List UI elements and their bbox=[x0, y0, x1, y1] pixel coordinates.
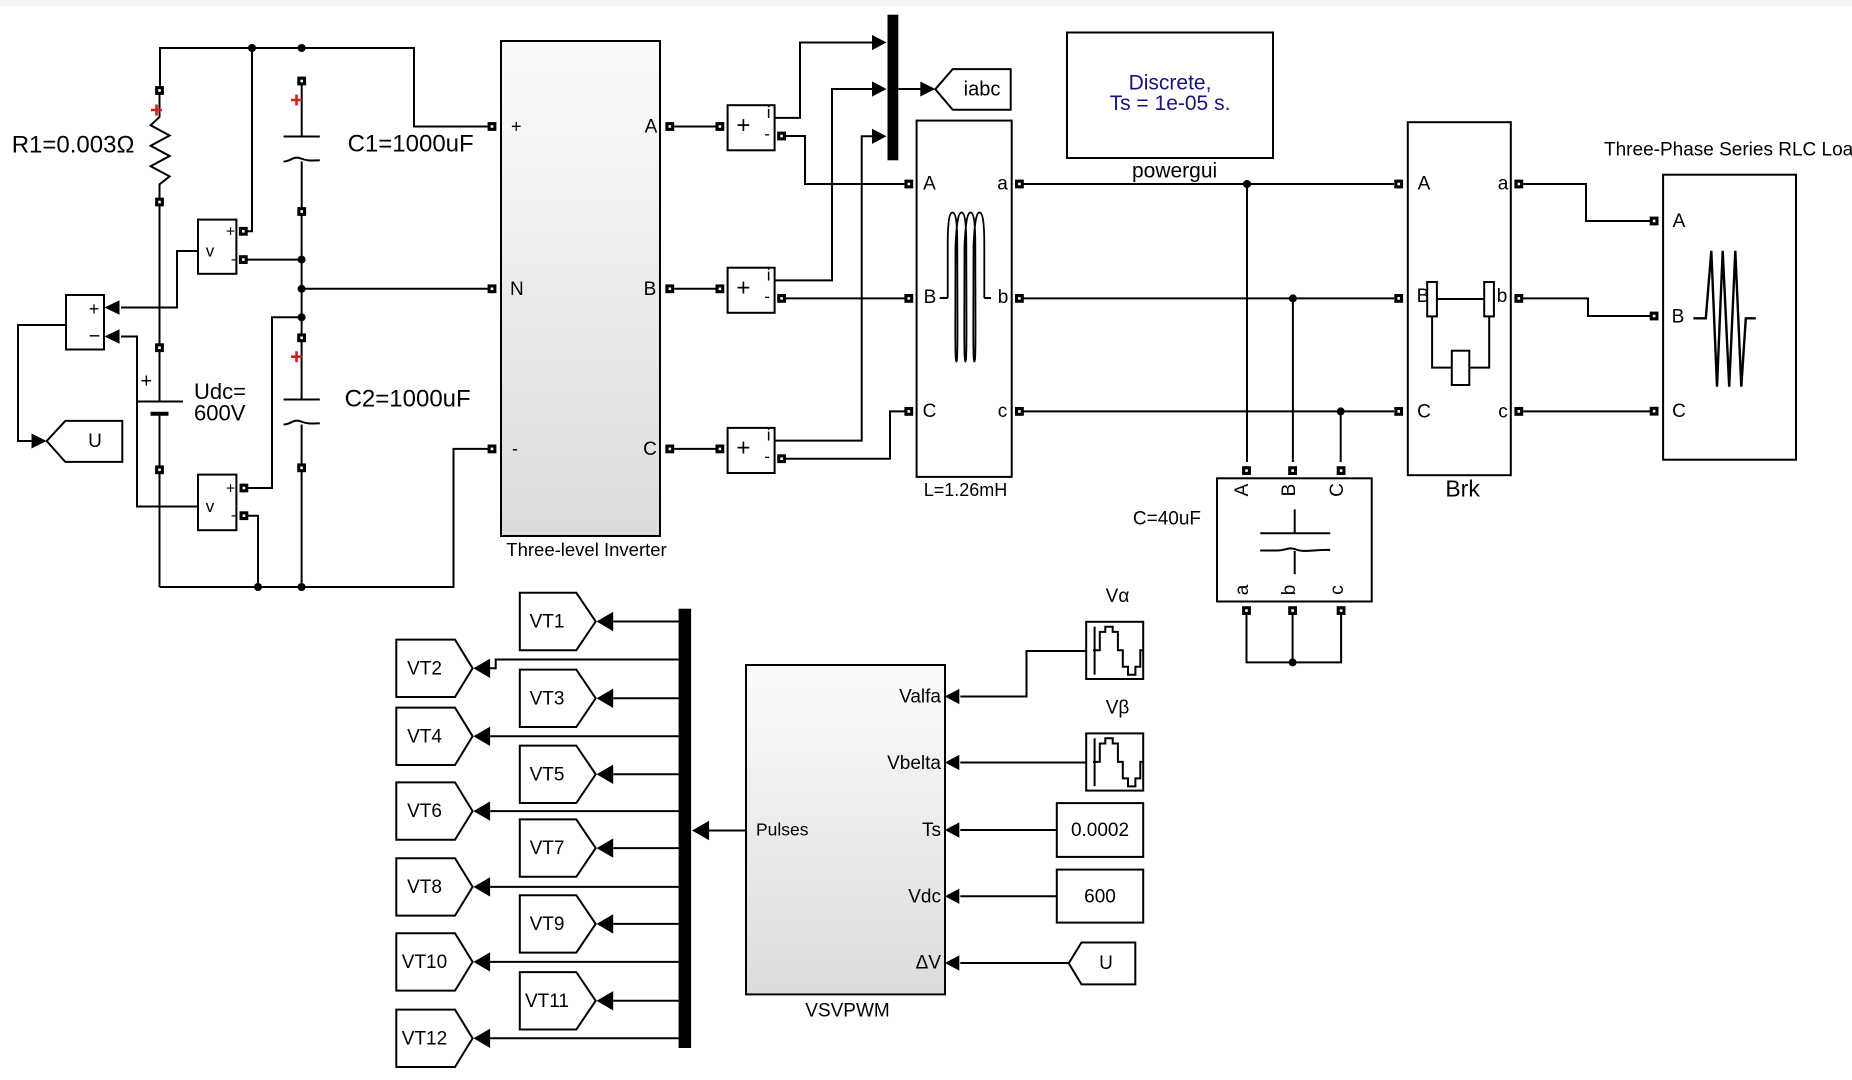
demux bus2 bbox=[679, 609, 692, 1048]
arrow into tag VT2 bbox=[474, 659, 491, 678]
goto tag VT12 bbox=[396, 1010, 472, 1067]
arrow into tag VT12 bbox=[474, 1029, 491, 1048]
svg-text:VT4: VT4 bbox=[407, 726, 442, 747]
current sensor CM1 bbox=[728, 103, 775, 150]
wire CM2 i output to mux bbox=[775, 89, 872, 280]
goto tag VT8 bbox=[396, 858, 472, 915]
svg-text:Ts: Ts bbox=[922, 820, 941, 841]
port B of cap bank bbox=[1288, 466, 1297, 475]
port C of RLC load bbox=[1650, 407, 1659, 416]
wire VSVPWM Pulses to demux bbox=[709, 830, 746, 832]
svg-text:N: N bbox=[510, 279, 524, 300]
mux bus1 bbox=[888, 15, 899, 161]
port - of inverter bbox=[488, 445, 497, 454]
port - of CM1 bbox=[777, 132, 786, 141]
wire demux to VT6 bbox=[490, 810, 678, 812]
junction cap bank star point bbox=[1289, 658, 1297, 666]
arrow into tag VT6 bbox=[474, 801, 491, 820]
wire V1 output to sum + bbox=[121, 251, 198, 308]
svg-text:Pulses: Pulses bbox=[756, 820, 809, 840]
goto tag VT5 bbox=[520, 746, 596, 803]
svg-text:VT5: VT5 bbox=[530, 764, 565, 785]
wire demux to VT8 bbox=[490, 886, 678, 888]
port c of cap bank bbox=[1337, 606, 1346, 615]
dc source Udc bbox=[137, 352, 183, 466]
port B of inverter bbox=[665, 284, 674, 293]
arrow into tag VT9 bbox=[597, 914, 614, 933]
port 1 of R1 bbox=[155, 86, 164, 95]
junction node N bbox=[298, 285, 306, 293]
svg-text:ΔV: ΔV bbox=[916, 953, 942, 974]
goto tag VT1 bbox=[520, 593, 596, 650]
svg-text:A: A bbox=[1418, 174, 1431, 195]
wire C2 bottom to DC- rail bbox=[301, 472, 303, 587]
port b of inductor block bbox=[1015, 294, 1024, 303]
svg-text:B: B bbox=[644, 279, 657, 300]
wire sum output to goto tag U bbox=[18, 325, 66, 441]
red polarity + of R1 bbox=[151, 105, 162, 116]
svg-text:C: C bbox=[1672, 401, 1686, 422]
wire demux to VT7 bbox=[613, 847, 678, 849]
svg-text:B: B bbox=[924, 287, 937, 308]
wire V2 - to DC- rail bbox=[242, 516, 259, 587]
arrow into Valfa input bbox=[945, 689, 960, 704]
svg-text:Vdc: Vdc bbox=[908, 886, 941, 907]
goto tag VT4 bbox=[396, 708, 472, 765]
svg-text:A: A bbox=[923, 174, 936, 195]
port 2 of C2 bbox=[297, 463, 306, 472]
goto tag VT6 bbox=[396, 782, 472, 839]
powergui block bbox=[1067, 33, 1273, 159]
svg-text:C1=1000uF: C1=1000uF bbox=[348, 130, 474, 157]
port + of V1 bbox=[239, 227, 248, 236]
svg-text:C: C bbox=[923, 401, 937, 422]
wire demux to VT9 bbox=[613, 923, 678, 925]
goto tag U bbox=[47, 421, 123, 462]
port 2 of R1 bbox=[155, 198, 164, 207]
svg-text:+: + bbox=[736, 275, 750, 302]
junction phase b to cap bank bbox=[1289, 294, 1297, 302]
port A of inductor block bbox=[904, 180, 913, 189]
port B of RLC load bbox=[1650, 312, 1659, 321]
svg-text:VT10: VT10 bbox=[402, 952, 447, 973]
svg-text:Three-Phase Series RLC Load: Three-Phase Series RLC Load bbox=[1604, 140, 1852, 161]
port - of CM3 bbox=[777, 454, 786, 463]
wire demux to VT10 bbox=[490, 961, 678, 963]
wire constant 600 to Vdc input bbox=[960, 895, 1057, 897]
wire inductor c to Brk C bbox=[1016, 410, 1394, 412]
svg-text:0.0002: 0.0002 bbox=[1071, 820, 1129, 841]
port C of cap bank bbox=[1337, 466, 1346, 475]
svg-text:Ts = 1e-05 s.: Ts = 1e-05 s. bbox=[1110, 92, 1231, 115]
port b of Brk bbox=[1514, 294, 1523, 303]
goto tag VT10 bbox=[396, 933, 472, 990]
junction DC+ rail / C1 top bbox=[298, 44, 306, 52]
svg-text:c: c bbox=[1327, 585, 1348, 595]
zigzag icon inside RLC load bbox=[1693, 251, 1756, 387]
wire Valpha scope to Valfa input bbox=[960, 651, 1086, 697]
svg-text:a: a bbox=[1498, 174, 1509, 195]
wire V2 + tap bbox=[241, 317, 302, 488]
svg-text:L=1.26mH: L=1.26mH bbox=[924, 480, 1008, 500]
coil icon of inductor block bbox=[948, 213, 985, 362]
port C of Brk bbox=[1394, 407, 1403, 416]
svg-text:+: + bbox=[140, 370, 152, 392]
wire inverter A to CM1 + bbox=[674, 126, 723, 128]
from tag U2 bbox=[1069, 943, 1136, 985]
voltmeter V2 bbox=[198, 475, 236, 531]
wire demux to VT11 bbox=[613, 1000, 678, 1002]
arrow into Vbelta input bbox=[945, 755, 960, 770]
svg-text:Vβ: Vβ bbox=[1106, 698, 1130, 719]
wire inverter C to CM3 + bbox=[674, 448, 723, 450]
capacitor icon inside cap bank bbox=[1260, 509, 1330, 574]
port c of Brk bbox=[1514, 407, 1523, 416]
svg-text:a: a bbox=[1232, 584, 1253, 595]
svg-text:+: + bbox=[226, 481, 235, 498]
arrow into Vdc input bbox=[945, 889, 960, 904]
wire CM1 - to inductor A bbox=[778, 136, 905, 184]
inductor block L=1.26mH bbox=[917, 121, 1012, 477]
scope Valpha bbox=[1086, 622, 1143, 679]
load block Three-Phase Series RLC Load bbox=[1663, 175, 1796, 460]
port C of inverter bbox=[665, 445, 674, 454]
svg-text:600: 600 bbox=[1084, 886, 1116, 907]
svg-text:+: + bbox=[226, 224, 235, 241]
wire CM2 - to inductor B bbox=[778, 297, 905, 299]
svg-text:B: B bbox=[1279, 484, 1300, 497]
red polarity + of C2 bbox=[291, 351, 302, 362]
arrow into tag VT3 bbox=[597, 689, 614, 708]
arrow into tag VT11 bbox=[597, 991, 614, 1010]
capacitor bank block C=40uF bbox=[1217, 478, 1372, 601]
svg-text:+: + bbox=[89, 299, 100, 319]
junction phase c to cap bank bbox=[1337, 407, 1345, 415]
wire phase b down to cap bank B bbox=[1292, 298, 1294, 462]
coil lead lines bbox=[940, 297, 991, 299]
svg-text:A: A bbox=[1673, 211, 1686, 232]
svg-text:a: a bbox=[997, 174, 1008, 195]
svg-text:b: b bbox=[998, 287, 1009, 308]
wire V1 + to DC+ rail bbox=[241, 48, 252, 231]
arrow into Ts input bbox=[945, 822, 960, 837]
svg-text:Vbelta: Vbelta bbox=[887, 753, 941, 774]
svg-text:U: U bbox=[1099, 953, 1113, 974]
svg-text:C: C bbox=[1327, 483, 1348, 497]
svg-text:VT3: VT3 bbox=[530, 688, 565, 709]
voltmeter V1 bbox=[198, 220, 236, 274]
port b of cap bank bbox=[1288, 606, 1297, 615]
svg-text:VSVPWM: VSVPWM bbox=[805, 1001, 889, 1022]
svg-text:b: b bbox=[1279, 585, 1300, 596]
arrow into sum + input bbox=[105, 300, 120, 314]
wire V2 output to sum - bbox=[121, 337, 198, 507]
wire cap bank star connection bbox=[1247, 615, 1342, 662]
port N of inverter bbox=[488, 284, 497, 293]
arrow into tag VT4 bbox=[474, 727, 491, 746]
port B of Brk bbox=[1394, 294, 1403, 303]
goto tag VT11 bbox=[520, 972, 596, 1029]
port A of Brk bbox=[1394, 180, 1403, 189]
wire cap bank b to star point bbox=[1292, 615, 1294, 662]
port + of V2 bbox=[240, 484, 249, 493]
subsystem VSVPWM bbox=[746, 665, 945, 994]
svg-text:-: - bbox=[512, 439, 518, 459]
port B of inductor block bbox=[904, 294, 913, 303]
port A of RLC load bbox=[1650, 217, 1659, 226]
arrow into tag VT7 bbox=[597, 838, 614, 857]
wire phase a down to cap bank A bbox=[1246, 184, 1248, 462]
wire demux to VT3 bbox=[613, 697, 678, 699]
port - of CM2 bbox=[777, 294, 786, 303]
junction phase a to cap bank bbox=[1243, 180, 1251, 188]
resistor R1 bbox=[151, 94, 170, 198]
port + of CM2 bbox=[716, 284, 725, 293]
arrow into iabc tag bbox=[920, 82, 935, 97]
arrow Pulses into demux bbox=[692, 821, 709, 840]
port + of CM1 bbox=[716, 122, 725, 131]
wire V1 - to midpoint node bbox=[241, 259, 302, 261]
svg-text:C: C bbox=[643, 439, 657, 460]
goto tag VT3 bbox=[520, 670, 596, 727]
wire CM3 i output to mux bbox=[775, 136, 872, 440]
port a of cap bank bbox=[1242, 606, 1251, 615]
svg-text:B: B bbox=[1672, 307, 1685, 328]
svg-text:VT8: VT8 bbox=[407, 877, 442, 898]
svg-text:A: A bbox=[1232, 483, 1253, 496]
svg-text:C: C bbox=[1417, 401, 1431, 422]
arrow CM2 i into mux bbox=[872, 81, 887, 96]
breaker block Brk bbox=[1408, 122, 1511, 475]
goto tag iabc bbox=[935, 69, 1010, 110]
svg-text:−: − bbox=[89, 325, 101, 347]
arrow into sum - input bbox=[105, 329, 120, 343]
arrow CM1 i into mux bbox=[872, 35, 887, 50]
svg-text:iabc: iabc bbox=[964, 78, 1001, 100]
svg-text:VT7: VT7 bbox=[530, 838, 565, 859]
port 1 of C1 bbox=[297, 77, 306, 86]
wire from tag U to dV input bbox=[960, 962, 1069, 964]
junction V2- on DC- rail bbox=[254, 583, 262, 591]
wire CM3 - to inductor C bbox=[778, 411, 905, 458]
svg-text:C=40uF: C=40uF bbox=[1133, 509, 1201, 530]
arrow CM3 i into mux bbox=[872, 129, 887, 144]
capacitor C1 bbox=[284, 85, 320, 208]
port 1 of C2 bbox=[297, 333, 306, 342]
wire N net to inverter N port bbox=[302, 288, 491, 290]
subsystem Three-level Inverter bbox=[501, 41, 660, 536]
arrow into tag VT5 bbox=[597, 765, 614, 784]
wire Brk b to load B bbox=[1523, 298, 1650, 316]
svg-text:-: - bbox=[231, 251, 236, 268]
svg-text:Valfa: Valfa bbox=[899, 687, 941, 708]
svg-text:600V: 600V bbox=[194, 400, 246, 425]
svg-text:Vα: Vα bbox=[1106, 586, 1130, 607]
wire phase c down to cap bank C bbox=[1340, 411, 1342, 462]
goto tag VT2 bbox=[396, 640, 472, 697]
wire demux to VT5 bbox=[613, 773, 678, 775]
wire demux to VT12 bbox=[490, 1037, 678, 1039]
wire mux output to iabc tag bbox=[898, 88, 921, 90]
port - of Udc bbox=[155, 465, 164, 474]
svg-text:VT1: VT1 bbox=[530, 612, 565, 633]
svg-text:+: + bbox=[736, 112, 750, 139]
junction DC+ rail / V1+ tap bbox=[248, 44, 256, 52]
capacitor C2 bbox=[284, 342, 320, 464]
sum block S1 bbox=[66, 295, 104, 350]
constant 0.0002 bbox=[1057, 803, 1143, 857]
arrow into tag VT1 bbox=[597, 612, 614, 631]
port C of inductor block bbox=[904, 407, 913, 416]
svg-text:+: + bbox=[736, 435, 750, 462]
scope Vbeta bbox=[1086, 733, 1143, 790]
arrow into tag VT8 bbox=[474, 877, 491, 896]
breaker icon inside Brk bbox=[1427, 282, 1494, 385]
arrow into tag VT10 bbox=[474, 952, 491, 971]
wire CM1 i output to mux bbox=[775, 43, 872, 118]
svg-text:c: c bbox=[1498, 401, 1508, 422]
goto tag VT9 bbox=[520, 895, 596, 952]
arrow into goto tag U bbox=[32, 434, 47, 449]
constant 600 bbox=[1057, 870, 1143, 923]
wire DC- rail to inverter - port bbox=[160, 449, 492, 587]
svg-text:-: - bbox=[764, 124, 770, 143]
junction C2 on DC- rail bbox=[298, 583, 306, 591]
wire demux to VT2 bbox=[490, 660, 678, 669]
svg-text:VT9: VT9 bbox=[530, 914, 565, 935]
svg-text:VT11: VT11 bbox=[525, 991, 569, 1012]
svg-text:Three-level Inverter: Three-level Inverter bbox=[506, 539, 666, 560]
svg-text:b: b bbox=[1497, 286, 1508, 307]
svg-text:c: c bbox=[998, 401, 1008, 422]
svg-text:VT12: VT12 bbox=[402, 1028, 447, 1049]
port 2 of C1 bbox=[297, 207, 306, 216]
port a of inductor block bbox=[1015, 180, 1024, 189]
red polarity + of C1 bbox=[291, 95, 302, 106]
svg-text:i: i bbox=[767, 426, 771, 445]
svg-text:-: - bbox=[764, 447, 770, 466]
port + of Udc bbox=[155, 343, 164, 352]
wire Udc - to DC- rail bbox=[159, 474, 161, 587]
wire Vbeta scope to Vbelta input bbox=[960, 762, 1086, 764]
svg-text:C2=1000uF: C2=1000uF bbox=[345, 385, 471, 412]
wire inverter B to CM2 + bbox=[674, 288, 723, 290]
port + of CM3 bbox=[716, 445, 725, 454]
wire DC+ rail to inverter + port bbox=[160, 48, 491, 127]
svg-text:U: U bbox=[88, 431, 102, 452]
port A of inverter bbox=[665, 122, 674, 131]
svg-text:i: i bbox=[767, 103, 771, 122]
port - of V1 bbox=[239, 255, 248, 264]
svg-text:A: A bbox=[645, 117, 658, 138]
svg-text:VT2: VT2 bbox=[407, 658, 442, 679]
wire inductor b to Brk B bbox=[1016, 297, 1394, 299]
svg-text:VT6: VT6 bbox=[407, 801, 442, 822]
svg-text:-: - bbox=[764, 287, 770, 306]
port a of Brk bbox=[1514, 180, 1523, 189]
arrow into dV input bbox=[945, 955, 960, 970]
svg-text:Brk: Brk bbox=[1445, 476, 1480, 502]
svg-text:R1=0.003Ω: R1=0.003Ω bbox=[12, 131, 135, 158]
svg-text:+: + bbox=[511, 116, 522, 136]
junction V1- on C1-C2 net bbox=[298, 256, 306, 264]
svg-text:v: v bbox=[206, 241, 215, 260]
port + of inverter bbox=[488, 122, 497, 131]
goto tag VT7 bbox=[520, 819, 596, 876]
svg-text:powergui: powergui bbox=[1132, 160, 1217, 183]
wire C1 bottom to C2 top (N net) bbox=[301, 216, 303, 334]
port - of V2 bbox=[240, 511, 249, 520]
svg-text:-: - bbox=[231, 507, 236, 524]
port c of inductor block bbox=[1015, 407, 1024, 416]
current sensor CM3 bbox=[728, 426, 775, 473]
port A of cap bank bbox=[1242, 466, 1251, 475]
wire Brk a to load A bbox=[1523, 184, 1650, 221]
wire demux to VT1 bbox=[613, 621, 678, 623]
svg-text:v: v bbox=[206, 497, 215, 516]
wire inductor a to Brk A bbox=[1016, 183, 1394, 185]
wire R1 to Udc + bbox=[159, 206, 161, 344]
wire Brk c to load C bbox=[1523, 410, 1650, 412]
wire constant 0.0002 to Ts input bbox=[960, 829, 1057, 831]
current sensor CM2 bbox=[728, 265, 775, 312]
junction V2+ tap bbox=[298, 313, 306, 321]
wire demux to VT4 bbox=[490, 735, 678, 737]
svg-text:i: i bbox=[767, 265, 771, 284]
